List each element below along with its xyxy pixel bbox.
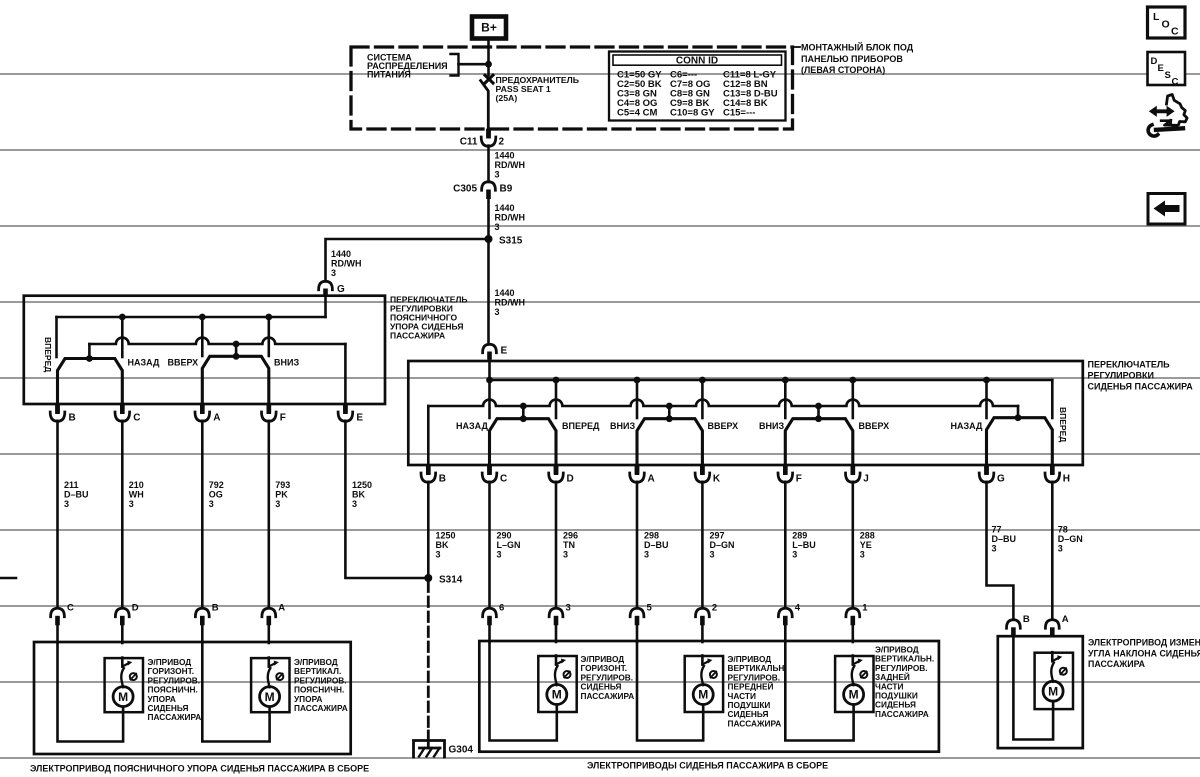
svg-text:3: 3 xyxy=(644,550,649,560)
svg-text:C: C xyxy=(1171,26,1179,38)
motor M2 bottom wire and return to B xyxy=(202,642,269,742)
svg-text:792: 792 xyxy=(209,480,224,490)
bracket from power distribution label xyxy=(451,54,459,76)
splice S314 xyxy=(424,574,432,582)
svg-text:ВНИЗ: ВНИЗ xyxy=(610,421,635,431)
vertical lumbar motor box xyxy=(251,658,289,712)
leader to montage block label xyxy=(793,46,801,48)
svg-text:ПАССАЖИРА: ПАССАЖИРА xyxy=(581,691,635,701)
svg-text:(ЛЕВАЯ СТОРОНА): (ЛЕВАЯ СТОРОНА) xyxy=(801,65,885,75)
lumbar switch terminal B xyxy=(55,405,60,415)
wire 78 D-GN xyxy=(1051,482,1054,620)
svg-text:C: C xyxy=(500,474,507,485)
svg-text:210: 210 xyxy=(129,480,144,490)
svg-text:297: 297 xyxy=(710,531,725,541)
svg-text:3: 3 xyxy=(331,268,336,278)
connector C305 pin B9 xyxy=(482,182,496,190)
seat motor connector 3 xyxy=(549,608,563,616)
seat motor connector 6 xyxy=(483,608,497,616)
seat motor connector 2 xyxy=(696,608,710,616)
svg-text:3: 3 xyxy=(495,307,500,317)
svg-text:289: 289 xyxy=(792,531,807,541)
svg-text:3: 3 xyxy=(209,499,214,509)
wire 77 D-BU xyxy=(987,482,1014,620)
ground G304 xyxy=(414,731,445,757)
svg-text:ПАССАЖИРА: ПАССАЖИРА xyxy=(728,718,782,728)
svg-text:RD/WH: RD/WH xyxy=(331,259,362,269)
recliner motor connector A xyxy=(1045,620,1059,628)
seat switch terminal C xyxy=(487,466,492,476)
svg-text:S315: S315 xyxy=(499,236,523,247)
svg-text:A: A xyxy=(278,603,285,614)
svg-text:RD/WH: RD/WH xyxy=(495,213,526,223)
svg-text:1440: 1440 xyxy=(495,288,515,298)
svg-text:1440: 1440 xyxy=(495,203,515,213)
wire 297 D-GN xyxy=(701,482,704,607)
svg-text:B: B xyxy=(212,603,219,614)
svg-text:M: M xyxy=(552,688,562,702)
svg-text:ПАНЕЛЬЮ ПРИБОРОВ: ПАНЕЛЬЮ ПРИБОРОВ xyxy=(801,54,903,64)
svg-text:ПАССАЖИРА: ПАССАЖИРА xyxy=(1088,659,1146,669)
svg-text:1250: 1250 xyxy=(352,480,372,490)
feed stub forward xyxy=(55,317,58,357)
svg-text:РЕГУЛИРОВКИ: РЕГУЛИРОВКИ xyxy=(1088,371,1155,381)
svg-text:5: 5 xyxy=(647,603,653,614)
common bus drop to tilt contact xyxy=(1017,406,1020,418)
connector C11 pin 2 xyxy=(486,129,491,139)
svg-text:3: 3 xyxy=(992,544,997,554)
svg-text:A: A xyxy=(1062,614,1069,625)
feed stubs from bus xyxy=(488,380,491,418)
svg-text:M: M xyxy=(118,690,128,704)
svg-text:2: 2 xyxy=(712,603,717,614)
svg-text:3: 3 xyxy=(563,550,568,560)
node at fuse top xyxy=(485,61,492,68)
svg-text:3: 3 xyxy=(497,550,502,560)
svg-text:3: 3 xyxy=(710,550,715,560)
svg-text:C15=---: C15=--- xyxy=(723,108,755,119)
svg-text:3: 3 xyxy=(436,550,441,560)
wire 1250 BK to splice S314 xyxy=(427,482,430,578)
seat switch terminal A xyxy=(635,466,640,476)
svg-text:НАЗАД: НАЗАД xyxy=(128,358,160,368)
svg-text:ПАССАЖИРА: ПАССАЖИРА xyxy=(294,703,348,713)
svg-text:ЭЛЕКТРОПРИВОД ПОЯСНИЧНОГО УПОР: ЭЛЕКТРОПРИВОД ПОЯСНИЧНОГО УПОРА СИДЕНЬЯ … xyxy=(30,764,369,774)
seat motor connector 1 xyxy=(846,608,860,616)
svg-text:2: 2 xyxy=(499,137,505,148)
seat switch common bus with crossover hops xyxy=(428,400,1018,406)
svg-text:296: 296 xyxy=(563,531,578,541)
svg-text:G304: G304 xyxy=(449,745,474,756)
svg-text:F: F xyxy=(280,413,286,424)
seat adjuster switch box xyxy=(408,361,1083,465)
svg-text:S: S xyxy=(1165,70,1171,81)
fuse block dashed box (montage block) xyxy=(351,47,793,129)
svg-text:3: 3 xyxy=(275,499,280,509)
seat switch contact down/up (rear height) xyxy=(785,419,853,466)
svg-text:3: 3 xyxy=(495,222,500,232)
svg-text:4: 4 xyxy=(795,603,801,614)
svg-text:M: M xyxy=(1048,684,1058,698)
svg-text:C5=4 CM: C5=4 CM xyxy=(617,108,657,119)
lumbar motor connector D xyxy=(115,608,129,616)
lumbar motor connector C xyxy=(51,608,65,616)
svg-text:ВПЕРЕД: ВПЕРЕД xyxy=(43,337,53,372)
ground wire S314 to G304 (dashed) xyxy=(427,582,430,731)
common bus to terminal E xyxy=(344,344,347,404)
svg-text:K: K xyxy=(713,474,721,485)
wire E pin into feed bus xyxy=(488,359,491,380)
svg-text:BK: BK xyxy=(436,540,449,550)
motor M6 bottom wire and return to B xyxy=(1013,636,1053,739)
svg-text:WH: WH xyxy=(129,490,144,500)
seat switch terminal B xyxy=(426,466,431,476)
svg-text:M: M xyxy=(265,690,275,704)
svg-text:E: E xyxy=(1158,63,1164,74)
svg-text:3: 3 xyxy=(495,170,500,180)
lumbar motor connector A xyxy=(262,608,276,616)
fuse PASS SEAT 1 25A xyxy=(487,64,490,75)
svg-text:OG: OG xyxy=(209,490,223,500)
common stub to contact xyxy=(522,406,525,419)
svg-text:3: 3 xyxy=(566,603,571,614)
svg-text:1: 1 xyxy=(862,603,868,614)
svg-text:C305: C305 xyxy=(453,184,477,195)
motor M3 bottom wire and return to 6 xyxy=(490,641,557,741)
svg-text:G: G xyxy=(997,474,1005,485)
troubleshooting icon (double arrow, outline, wrench) xyxy=(1148,95,1187,137)
DESC icon box xyxy=(1148,52,1186,85)
seat switch contact down/up (front height) xyxy=(637,419,702,466)
recliner motor assembly box xyxy=(998,636,1083,748)
seat switch feed bus xyxy=(490,379,1053,382)
svg-text:B: B xyxy=(1023,614,1030,625)
svg-text:D–GN: D–GN xyxy=(1058,534,1083,544)
svg-text:O: O xyxy=(1162,19,1170,31)
svg-text:6: 6 xyxy=(499,603,504,614)
svg-text:L: L xyxy=(1153,11,1160,23)
recliner motor connector B xyxy=(1007,620,1021,628)
seat motor connector 4 xyxy=(778,608,792,616)
wire 296 TN xyxy=(555,482,558,607)
motor M4 bottom wire and return to 5 xyxy=(637,641,703,741)
feed stub down xyxy=(267,317,270,356)
off-page wire stub xyxy=(0,577,16,580)
svg-text:S314: S314 xyxy=(439,575,463,586)
svg-text:RD/WH: RD/WH xyxy=(495,298,526,308)
svg-text:ВПЕРЕД: ВПЕРЕД xyxy=(1058,407,1068,442)
svg-text:ВНИЗ: ВНИЗ xyxy=(759,421,784,431)
svg-text:НАЗАД: НАЗАД xyxy=(951,421,983,431)
svg-text:ПАССАЖИРА: ПАССАЖИРА xyxy=(390,331,445,341)
seat motor connector 5 xyxy=(630,608,644,616)
svg-text:3: 3 xyxy=(1058,544,1063,554)
svg-text:C10=8 GY: C10=8 GY xyxy=(670,108,715,119)
svg-text:3: 3 xyxy=(792,550,797,560)
svg-text:1250: 1250 xyxy=(436,531,456,541)
wire 290 L-GN xyxy=(488,482,491,607)
feed stub back xyxy=(121,317,124,357)
seat switch terminal G xyxy=(984,466,989,476)
svg-text:A: A xyxy=(648,474,655,485)
seat switch terminal K xyxy=(700,466,705,476)
svg-text:A: A xyxy=(213,413,220,424)
svg-text:ВПЕРЕД: ВПЕРЕД xyxy=(562,421,600,431)
seat switch contact back/fwd (tilt) xyxy=(987,418,1053,466)
svg-text:BK: BK xyxy=(352,490,365,500)
svg-text:C: C xyxy=(1172,77,1179,88)
svg-text:J: J xyxy=(863,474,869,485)
battery feed B+ xyxy=(472,17,506,39)
svg-text:M: M xyxy=(849,688,859,702)
motor M5 bottom wire and return to 4 xyxy=(785,641,853,741)
svg-text:288: 288 xyxy=(860,531,875,541)
svg-text:B9: B9 xyxy=(500,184,513,195)
seat motors assembly box xyxy=(479,641,939,752)
wire 1440 RD/WH xyxy=(487,146,490,182)
svg-text:ВВЕРХ: ВВЕРХ xyxy=(168,358,199,368)
svg-text:3: 3 xyxy=(129,499,134,509)
rear height motor box xyxy=(835,656,873,712)
svg-text:3: 3 xyxy=(64,499,69,509)
horizontal lumbar motor box xyxy=(105,658,143,712)
connector G into lumbar switch xyxy=(319,281,333,289)
wire 793 PK xyxy=(267,421,270,607)
svg-text:D–BU: D–BU xyxy=(644,540,669,550)
wire B+ to fuse block xyxy=(487,39,490,64)
svg-text:H: H xyxy=(1063,474,1070,485)
seat switch contact back/fwd (horizontal motor) xyxy=(490,419,557,466)
svg-text:ПИТАНИЯ: ПИТАНИЯ xyxy=(367,70,411,80)
svg-text:RD/WH: RD/WH xyxy=(495,160,526,170)
horizontal seat motor box xyxy=(538,656,576,712)
common bus to terminal B xyxy=(427,406,430,465)
lumbar switch terminal F xyxy=(267,405,272,415)
back arrow icon box xyxy=(1148,194,1185,225)
lumbar switch terminal E xyxy=(343,405,348,415)
seat switch terminal D xyxy=(554,466,559,476)
svg-text:78: 78 xyxy=(1058,525,1068,535)
svg-text:3: 3 xyxy=(352,499,357,509)
svg-text:(25A): (25A) xyxy=(496,93,518,103)
svg-text:СИДЕНЬЯ ПАССАЖИРА: СИДЕНЬЯ ПАССАЖИРА xyxy=(1088,382,1194,392)
svg-text:B: B xyxy=(69,413,76,424)
svg-text:L–BU: L–BU xyxy=(792,540,816,550)
svg-text:CONN ID: CONN ID xyxy=(676,56,718,67)
front height motor box xyxy=(685,656,723,712)
wire 288 YE xyxy=(851,482,854,607)
wire 1250 BK to splice S314 xyxy=(345,421,424,578)
svg-text:ПАССАЖИРА: ПАССАЖИРА xyxy=(148,712,202,722)
svg-text:YE: YE xyxy=(860,540,872,550)
svg-text:МОНТАЖНЫЙ БЛОК ПОД: МОНТАЖНЫЙ БЛОК ПОД xyxy=(801,42,914,53)
svg-text:ВВЕРХ: ВВЕРХ xyxy=(859,421,890,431)
svg-text:793: 793 xyxy=(275,480,290,490)
branch wire to lumbar switch xyxy=(326,239,489,282)
svg-text:D: D xyxy=(132,603,139,614)
svg-text:PK: PK xyxy=(275,490,288,500)
svg-text:ЭЛЕКТРОПРИВОД ИЗМЕН.: ЭЛЕКТРОПРИВОД ИЗМЕН. xyxy=(1088,638,1200,648)
lumbar feed bus xyxy=(57,316,326,319)
svg-text:M: M xyxy=(698,688,708,702)
splice S315 xyxy=(485,235,493,243)
svg-text:L–GN: L–GN xyxy=(497,540,521,550)
svg-text:ПЕРЕКЛЮЧАТЕЛЬ: ПЕРЕКЛЮЧАТЕЛЬ xyxy=(1088,360,1171,370)
svg-text:1440: 1440 xyxy=(495,151,515,161)
svg-text:B: B xyxy=(439,474,446,485)
svg-text:C: C xyxy=(133,413,140,424)
svg-text:211: 211 xyxy=(64,480,79,490)
svg-text:НАЗАД: НАЗАД xyxy=(456,421,488,431)
wire 298 D-BU xyxy=(636,482,639,607)
svg-text:D: D xyxy=(567,474,574,485)
lumbar support switch box xyxy=(24,296,385,404)
feed stub up xyxy=(201,317,204,356)
connector E into seat switch xyxy=(483,344,497,352)
svg-text:77: 77 xyxy=(992,525,1002,535)
svg-text:C: C xyxy=(67,603,74,614)
wire 211 D-BU xyxy=(56,421,59,607)
lumbar switch terminal A xyxy=(200,405,205,415)
svg-text:G: G xyxy=(337,284,345,295)
svg-text:B+: B+ xyxy=(481,21,497,35)
seat switch terminal F xyxy=(783,466,788,476)
lumbar motor connector B xyxy=(195,608,209,616)
svg-text:F: F xyxy=(796,474,802,485)
lumbar common bus with crossover hops xyxy=(89,338,345,344)
svg-text:D–BU: D–BU xyxy=(64,490,89,500)
svg-text:D–BU: D–BU xyxy=(992,534,1017,544)
svg-text:ВВЕРХ: ВВЕРХ xyxy=(708,421,739,431)
seat switch terminal J xyxy=(851,466,856,476)
svg-text:ПАССАЖИРА: ПАССАЖИРА xyxy=(875,709,929,719)
svg-text:C11: C11 xyxy=(460,137,478,148)
lumbar switch contact up/down xyxy=(202,356,268,404)
wire 289 L-BU xyxy=(784,482,787,607)
common stub to contact xyxy=(817,406,820,419)
motor M1 bottom wire and return to C xyxy=(58,642,124,742)
wire bracket to node xyxy=(459,63,489,66)
lumbar switch terminal C xyxy=(120,405,125,415)
feed stub forward (right end) xyxy=(1051,380,1054,418)
svg-text:E: E xyxy=(501,346,508,357)
svg-text:ВНИЗ: ВНИЗ xyxy=(274,358,299,368)
svg-text:290: 290 xyxy=(497,531,512,541)
lumbar motor assembly box xyxy=(34,642,351,754)
svg-text:298: 298 xyxy=(644,531,659,541)
wire 1440 RD/WH xyxy=(487,199,490,345)
svg-text:D: D xyxy=(1151,56,1158,67)
svg-text:E: E xyxy=(356,413,363,424)
wire G pin into feed bus xyxy=(324,295,327,317)
svg-text:1440: 1440 xyxy=(331,249,351,259)
wire 210 WH xyxy=(121,421,124,607)
svg-text:3: 3 xyxy=(860,550,865,560)
svg-text:TN: TN xyxy=(563,540,575,550)
CONN ID table xyxy=(609,52,786,121)
svg-text:УГЛА НАКЛОНА СИДЕНЬЯ: УГЛА НАКЛОНА СИДЕНЬЯ xyxy=(1088,648,1200,658)
LOC icon box xyxy=(1148,7,1186,38)
svg-text:ЭЛЕКТРОПРИВОДЫ СИДЕНЬЯ ПАССАЖИ: ЭЛЕКТРОПРИВОДЫ СИДЕНЬЯ ПАССАЖИРА В СБОРЕ xyxy=(587,761,828,771)
lumbar switch contact fwd/back xyxy=(58,359,123,405)
wire 792 OG xyxy=(201,421,204,607)
seat switch terminal H xyxy=(1050,466,1055,476)
svg-text:D–GN: D–GN xyxy=(710,540,735,550)
common stub to contact xyxy=(668,406,671,419)
